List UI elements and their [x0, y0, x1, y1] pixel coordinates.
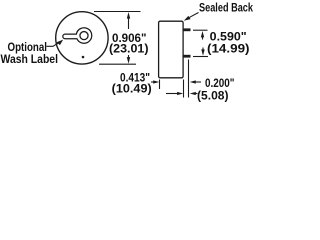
dimension 0.200: left-pointing arrow at pin-end line — [194, 93, 198, 95]
wash label slot + shaft bushing outer ring (keyhole silhouette) — [63, 28, 92, 44]
dimension 0.590: top tick line at pin — [193, 29, 208, 31]
terminal pin top — [183, 28, 191, 31]
dimension 0.200: right-pointing arrow at back face line — [166, 93, 179, 95]
dimension 0.590: down arrow — [202, 48, 204, 52]
dimension 0.590: up arrow — [201, 31, 204, 37]
front view: potentiometer body circle — [56, 12, 108, 64]
dimension 0.906: down arrow — [128, 55, 130, 59]
leader arrowhead at wash label slot — [57, 40, 64, 46]
side view: body rectangle — [159, 21, 184, 78]
index dot on front face — [82, 56, 85, 59]
dimension 0.413: left-pointing arrow at pin-end line — [194, 81, 201, 83]
dimension 0.906: top tangent extension line — [94, 11, 141, 13]
dimension 0.906: bottom tangent extension line — [99, 63, 136, 65]
extension line: pin ends — [188, 60, 190, 98]
leader line from Optional label — [47, 42, 61, 47]
svg-text:Wash Label: Wash Label — [1, 52, 59, 66]
terminal pin bottom — [183, 55, 191, 58]
dimension 0.413: right-pointing arrow to front face line — [151, 81, 155, 83]
svg-text:(5.08): (5.08) — [197, 89, 229, 103]
leader arrowhead at sealed back corner — [184, 16, 191, 21]
svg-text:(10.49): (10.49) — [112, 82, 152, 96]
dimension 0.906: up arrow — [127, 12, 130, 19]
svg-text:(23.01): (23.01) — [109, 41, 149, 55]
shaft hole inner circle — [80, 32, 88, 40]
dimension 0.590: bottom tick line at pin — [193, 56, 208, 58]
leader line from Sealed Back label — [188, 13, 199, 19]
extension line: front face below body — [159, 80, 161, 90]
extension line: back face below body — [183, 80, 185, 98]
svg-text:Sealed Back: Sealed Back — [199, 1, 253, 15]
svg-text:(14.99): (14.99) — [207, 42, 250, 56]
